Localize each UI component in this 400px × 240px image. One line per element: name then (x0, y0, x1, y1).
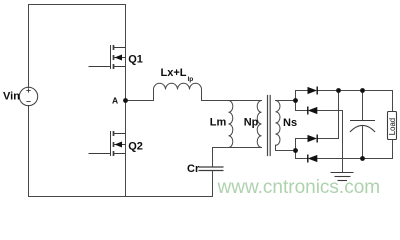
wire D3 cathode up to plus rail (317, 91, 338, 139)
wire filter cap top lead (362, 91, 364, 121)
svg-text:Vin: Vin (3, 91, 20, 103)
svg-text:Lx+L: Lx+L (161, 67, 187, 79)
MOSFET Q2 (89, 131, 126, 156)
wire Q1 drain-source lead through node A to Q2 and bottom rail (125, 48, 127, 197)
wire Cr bottom lead (212, 171, 214, 197)
capacitor Cr (199, 167, 224, 171)
ground (331, 173, 354, 181)
voltage source Vin (19, 87, 37, 105)
svg-text:Cr: Cr (187, 163, 200, 175)
transformer core (267, 96, 269, 156)
inductor Lx+Llp (154, 83, 202, 89)
svg-text:Np: Np (244, 117, 259, 129)
svg-text:Q2: Q2 (128, 141, 143, 153)
node A (123, 98, 128, 103)
diode D2 (308, 107, 318, 115)
diode D3 (308, 135, 318, 143)
junction dot plus rail left (336, 88, 341, 93)
svg-text:Load: Load (388, 118, 397, 135)
wire filter cap bottom lead (362, 126, 364, 159)
svg-text:Ns: Ns (283, 117, 297, 129)
junction dot secondary top (293, 98, 298, 103)
filter capacitor (350, 121, 375, 133)
junction dot cap top (360, 88, 365, 93)
svg-text:A: A (112, 96, 118, 106)
winding Ns (276, 101, 281, 146)
wire transformer primary bottom (213, 148, 262, 168)
wire Ns bottom lead (276, 145, 296, 150)
svg-text:www.cntronics.com: www.cntronics.com (217, 177, 381, 198)
wire bottom rail (29, 196, 213, 198)
load (388, 112, 397, 140)
wire AC bottom node to D4 cathode (296, 151, 308, 159)
wire D1 cathode to plus rail and load top (317, 91, 392, 112)
wire Ns top lead (276, 100, 296, 102)
wire Vin top lead (28, 5, 30, 88)
junction dot secondary bottom (293, 148, 298, 153)
winding Np (257, 101, 261, 148)
wire AC top node to D1 anode (296, 91, 308, 101)
wire Vin bottom lead (28, 106, 30, 197)
wire top rail from Vin to Q1 drain (29, 5, 126, 48)
wire D4 anode to minus rail and load bottom (317, 140, 392, 159)
svg-text:Q1: Q1 (128, 54, 143, 66)
wire ground vertical (342, 111, 344, 173)
diode D4 (308, 155, 318, 163)
svg-text:Lm: Lm (210, 116, 227, 128)
wire AC bottom node to D3 anode (296, 139, 308, 151)
wire D2 anode to ground vertical (317, 110, 342, 112)
svg-text:lp: lp (188, 76, 194, 83)
wire AC top node to D2 cathode (296, 101, 308, 111)
inductor Lm (229, 101, 233, 148)
MOSFET Q1 (89, 45, 126, 69)
junction dot cap bottom (360, 156, 365, 161)
diode D1 (308, 87, 318, 95)
wire inductor to transformer primary top (202, 90, 262, 101)
wire node A to inductor (126, 90, 154, 101)
